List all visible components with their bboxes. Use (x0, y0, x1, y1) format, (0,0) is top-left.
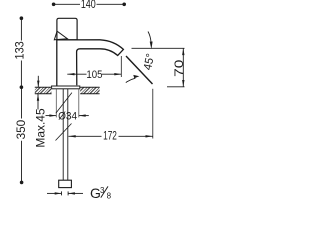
svg-text:172: 172 (103, 130, 117, 143)
svg-text:70: 70 (173, 59, 186, 77)
svg-text:8: 8 (107, 192, 112, 201)
svg-text:Max.45: Max.45 (34, 108, 47, 148)
svg-text:105: 105 (86, 68, 102, 81)
svg-text:133: 133 (14, 41, 26, 59)
svg-text:3: 3 (100, 186, 105, 195)
svg-text:Ø34: Ø34 (58, 110, 77, 123)
svg-text:350: 350 (15, 120, 28, 140)
svg-text:140: 140 (81, 0, 96, 12)
